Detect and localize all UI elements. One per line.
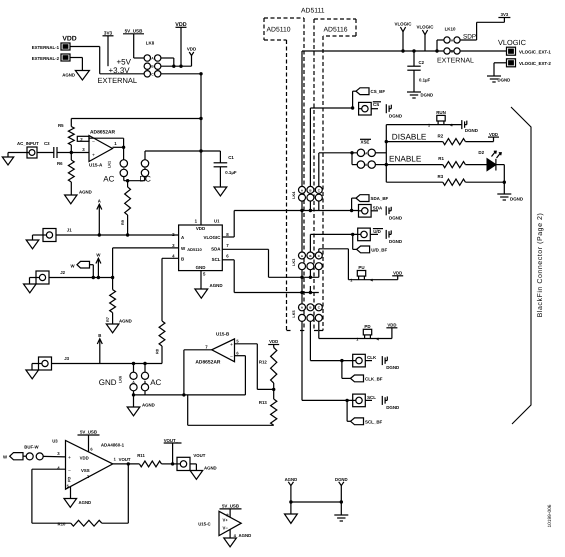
svg-text:J1: J1 xyxy=(67,228,72,233)
svg-text:GND: GND xyxy=(99,378,117,387)
svg-text:U15-C: U15-C xyxy=(198,522,210,527)
svg-text:DGND: DGND xyxy=(386,405,400,410)
svg-text:LK3: LK3 xyxy=(292,259,296,266)
svg-text:SCL_BF: SCL_BF xyxy=(365,419,383,424)
svg-text:R8: R8 xyxy=(156,349,160,354)
svg-text:AD5111: AD5111 xyxy=(301,8,325,15)
svg-text:VDD: VDD xyxy=(393,271,402,276)
svg-text:C2: C2 xyxy=(419,60,425,65)
svg-text:3V3: 3V3 xyxy=(104,31,113,36)
svg-text:B: B xyxy=(98,333,101,338)
svg-text:BUF-W: BUF-W xyxy=(24,445,39,450)
svg-text:J3: J3 xyxy=(64,356,69,361)
svg-text:C3: C3 xyxy=(44,141,50,146)
svg-text:R6: R6 xyxy=(57,161,63,166)
svg-text:SDA: SDA xyxy=(211,246,221,251)
svg-text:AC: AC xyxy=(103,175,114,184)
svg-text:PD: PD xyxy=(68,476,72,482)
svg-text:R13: R13 xyxy=(259,400,267,405)
svg-text:VLOGIC: VLOGIC xyxy=(498,38,527,47)
svg-text:VSS: VSS xyxy=(81,468,90,473)
svg-text:R3: R3 xyxy=(438,174,444,179)
svg-text:DGND: DGND xyxy=(389,239,403,244)
svg-text:V+: V+ xyxy=(223,518,229,523)
svg-text:AD5116: AD5116 xyxy=(324,27,348,34)
svg-text:AC: AC xyxy=(150,378,161,387)
svg-text:EXTERNAL-1: EXTERNAL-1 xyxy=(32,45,60,50)
svg-text:AGND: AGND xyxy=(142,403,155,408)
svg-text:PU: PU xyxy=(358,265,364,270)
svg-text:R11: R11 xyxy=(137,453,145,458)
svg-text:BlackFin Connector (Page 2): BlackFin Connector (Page 2) xyxy=(536,213,544,318)
svg-text:−: − xyxy=(230,355,233,361)
svg-text:RUN: RUN xyxy=(436,110,446,115)
svg-text:VDD: VDD xyxy=(187,47,197,52)
svg-text:PD: PD xyxy=(364,324,371,329)
svg-text:−: − xyxy=(68,468,71,474)
svg-text:EXTERNAL: EXTERNAL xyxy=(437,58,474,65)
svg-text:VLOGIC_EXT-2: VLOGIC_EXT-2 xyxy=(519,61,551,66)
svg-text:XSE: XSE xyxy=(361,140,370,145)
svg-text:AGND: AGND xyxy=(79,500,92,505)
svg-text:5V_USB: 5V_USB xyxy=(80,430,97,435)
svg-text:DGND: DGND xyxy=(335,477,348,482)
svg-text:VLOGIC: VLOGIC xyxy=(416,25,434,30)
svg-text:LK4: LK4 xyxy=(292,191,296,199)
svg-text:AGND: AGND xyxy=(239,533,252,538)
svg-text:0.1µF: 0.1µF xyxy=(225,170,237,175)
svg-text:10199-006: 10199-006 xyxy=(547,504,553,527)
svg-text:CLK_BF: CLK_BF xyxy=(365,376,383,381)
svg-text:−: − xyxy=(92,139,95,145)
svg-text:+: + xyxy=(230,342,233,348)
svg-text:VDD: VDD xyxy=(489,132,498,137)
svg-text:+: + xyxy=(92,153,95,159)
svg-text:B: B xyxy=(181,256,184,261)
svg-text:AD8652AR: AD8652AR xyxy=(90,130,115,136)
svg-text:R5: R5 xyxy=(58,123,64,128)
svg-text:+3.3V: +3.3V xyxy=(109,66,131,75)
svg-text:LK6: LK6 xyxy=(119,376,123,383)
svg-text:DGND: DGND xyxy=(389,216,403,221)
svg-text:VOUT: VOUT xyxy=(193,453,205,458)
svg-text:CLK: CLK xyxy=(367,355,377,360)
svg-text:AGND: AGND xyxy=(62,73,75,78)
svg-text:DGND: DGND xyxy=(510,197,524,202)
svg-text:GND: GND xyxy=(196,265,207,270)
svg-text:SCL: SCL xyxy=(367,395,376,400)
svg-text:U1: U1 xyxy=(214,219,220,224)
svg-text:AD5110: AD5110 xyxy=(267,27,291,34)
svg-text:5V_USB: 5V_USB xyxy=(222,504,239,509)
svg-text:VDD: VDD xyxy=(196,226,206,231)
svg-text:EXTERNAL-2: EXTERNAL-2 xyxy=(32,56,60,61)
svg-text:LK8: LK8 xyxy=(146,41,155,46)
svg-text:3V3: 3V3 xyxy=(501,12,509,17)
svg-text:DGND: DGND xyxy=(465,128,479,133)
svg-text:R7: R7 xyxy=(106,317,110,322)
svg-text:ENABLE: ENABLE xyxy=(389,155,422,164)
svg-text:R1: R1 xyxy=(438,156,444,161)
svg-text:ADA4860-1: ADA4860-1 xyxy=(101,443,125,448)
svg-text:AD5110: AD5110 xyxy=(187,247,202,252)
svg-text:AD8652AR: AD8652AR xyxy=(195,360,220,366)
svg-text:V−: V− xyxy=(223,526,229,531)
svg-text:U15-A: U15-A xyxy=(89,163,103,168)
svg-text:DGND: DGND xyxy=(421,93,434,98)
svg-text:A: A xyxy=(98,199,101,204)
svg-text:CS_BF: CS_BF xyxy=(371,89,386,94)
svg-text:SDA: SDA xyxy=(373,205,383,210)
svg-text:AGND: AGND xyxy=(204,466,217,471)
svg-text:VDD: VDD xyxy=(62,36,76,43)
svg-text:DGND: DGND xyxy=(498,78,511,83)
svg-text:C1: C1 xyxy=(228,155,234,160)
svg-text:R9: R9 xyxy=(121,220,125,225)
svg-text:R2: R2 xyxy=(438,134,444,139)
svg-text:LK10: LK10 xyxy=(445,27,456,32)
svg-text:EXTERNAL: EXTERNAL xyxy=(98,76,138,85)
svg-text:VDD: VDD xyxy=(269,339,278,344)
svg-text:CS: CS xyxy=(373,102,379,107)
svg-text:SCL: SCL xyxy=(212,257,221,262)
svg-text:R10: R10 xyxy=(58,522,66,527)
svg-text:VLOGIC_EXT-1: VLOGIC_EXT-1 xyxy=(519,50,551,55)
svg-text:SDA_BF: SDA_BF xyxy=(371,196,389,201)
svg-text:U15-B: U15-B xyxy=(216,332,230,337)
svg-text:AGND: AGND xyxy=(119,319,132,324)
svg-text:U/D: U/D xyxy=(373,229,381,234)
svg-text:DGND: DGND xyxy=(386,365,400,370)
svg-text:+: + xyxy=(68,455,71,461)
svg-text:DISABLE: DISABLE xyxy=(392,133,427,142)
svg-text:AGND: AGND xyxy=(210,283,224,288)
svg-text:U/D_BF: U/D_BF xyxy=(371,247,387,252)
svg-text:AC_INPUT: AC_INPUT xyxy=(17,141,39,146)
svg-text:5V_USB: 5V_USB xyxy=(125,29,144,34)
svg-text:AGND: AGND xyxy=(285,477,298,482)
svg-text:U3: U3 xyxy=(52,439,58,444)
svg-text:VOUT_: VOUT_ xyxy=(164,438,179,443)
svg-text:LK1: LK1 xyxy=(108,161,112,168)
svg-text:LK5: LK5 xyxy=(292,310,296,317)
svg-text:VOUT: VOUT xyxy=(119,457,131,462)
svg-text:J2: J2 xyxy=(60,270,65,275)
svg-text:VDD: VDD xyxy=(387,323,396,328)
svg-text:0.1µF: 0.1µF xyxy=(419,78,431,83)
svg-text:AGND: AGND xyxy=(79,190,92,195)
svg-text:DGND: DGND xyxy=(389,114,403,119)
svg-text:D2: D2 xyxy=(478,150,484,155)
svg-text:R12: R12 xyxy=(259,360,267,365)
svg-text:VLOGIC: VLOGIC xyxy=(203,235,221,240)
svg-text:VLOGIC: VLOGIC xyxy=(394,22,412,27)
svg-text:VDD: VDD xyxy=(80,455,89,460)
